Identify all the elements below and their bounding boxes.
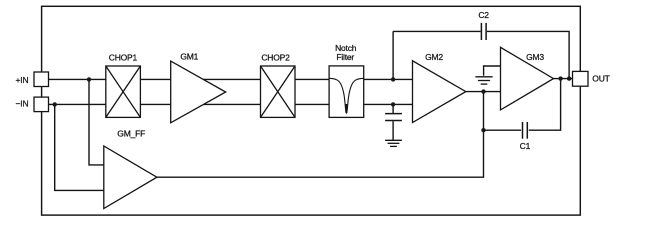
wire GM3 non-inverting input stub [484,66,501,76]
svg-text:Filter: Filter [336,52,354,62]
notch filter curve tip [345,104,347,113]
svg-text:GM1: GM1 [180,52,198,62]
op-amp GM1 [171,61,226,123]
wire +IN feedback vertical to GM_FF [89,79,104,164]
node GM2 output junction [481,89,485,93]
capacitor C1 [523,122,528,139]
node -IN junction [53,102,57,106]
wire C2 left lead [392,31,394,79]
node C1/output junction [558,76,562,80]
svg-text:GM2: GM2 [425,52,443,62]
op-amp GM2 [413,61,466,123]
capacitor C2 [481,23,486,40]
svg-text:CHOP1: CHOP1 [109,53,138,63]
op-amp GM_FF feedforward [104,146,157,209]
ground at GM3 non-inverting input [475,77,492,84]
wire GM_FF output to summing node [157,92,484,178]
ground below shunt capacitor [385,140,402,146]
wire shunt capacitor top lead [392,104,394,113]
node C2/output junction [567,76,571,80]
chopper CHOP2 [261,66,296,117]
node +IN junction [87,77,91,81]
svg-text:CHOP2: CHOP2 [261,53,290,63]
svg-text:GM3: GM3 [526,52,544,62]
pin +IN [34,72,49,87]
pin -IN [34,97,49,112]
notch filter response curve [329,78,364,113]
wire C2 left horizontal [393,30,481,32]
wire C1 left lead [484,129,522,131]
node C2 left junction [391,77,395,81]
svg-text:GM_FF: GM_FF [117,129,145,139]
wire -IN feedback vertical to GM_FF [55,104,104,190]
svg-text:+IN: +IN [16,75,29,85]
svg-text:OUT: OUT [592,74,609,84]
svg-text:−IN: −IN [16,99,29,109]
wire upper differential rail (+IN to GM2) [49,78,414,80]
wire C1 right lead up to output [529,79,561,131]
node C1 branch junction [481,128,485,132]
wire C2 right lead down to output [487,31,569,78]
wire shunt capacitor bottom lead [392,121,394,140]
svg-text:C2: C2 [478,10,489,20]
chopper CHOP1 [106,66,141,117]
capacitor shunt (GM2 input filter) [385,114,402,121]
wire GM3 output to OUT pin [553,78,572,80]
op-amp GM3 [501,47,554,110]
pin OUT [573,71,589,86]
notch filter block [329,66,364,118]
svg-text:C1: C1 [520,141,531,151]
outer boundary box [42,6,581,215]
wire lower differential rail (-IN to GM2) [49,103,414,105]
node shunt capacitor junction [391,102,395,106]
wire GM2 output to GM3 inverting input [466,91,501,93]
